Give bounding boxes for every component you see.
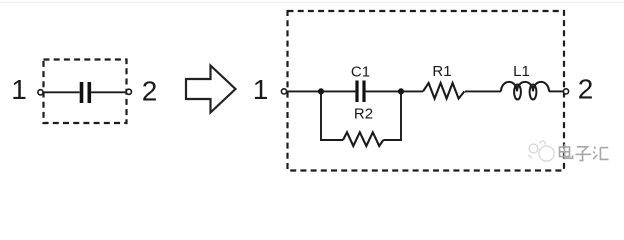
- svg-text:R2: R2: [354, 106, 373, 123]
- wire: [549, 90, 563, 92]
- wire: [465, 90, 501, 92]
- svg-text:C1: C1: [351, 64, 370, 81]
- terminal node 1 (left circuit): [38, 90, 43, 95]
- wire (R2 branch, right): [383, 91, 401, 140]
- svg-text:1: 1: [253, 74, 269, 105]
- junction node A: [318, 88, 324, 94]
- svg-text:1: 1: [11, 74, 27, 105]
- svg-text:2: 2: [142, 76, 158, 107]
- wire: [91, 91, 126, 93]
- wire: [401, 90, 423, 92]
- watermark text 电子汇: [560, 144, 609, 160]
- wire: [366, 90, 401, 92]
- capacitor (left circuit): [82, 82, 90, 103]
- terminal node 1 (right circuit): [281, 89, 286, 94]
- equivalence arrow: [186, 66, 236, 113]
- svg-text:L1: L1: [513, 63, 530, 80]
- junction node B: [398, 88, 404, 94]
- 汇: [594, 147, 596, 149]
- dashed equivalent-circuit outline (right circuit): [288, 11, 565, 171]
- inductor L1: [501, 82, 549, 100]
- terminal node 2 (left circuit): [126, 89, 131, 94]
- wire (R2 branch, left): [321, 91, 343, 140]
- capacitor C1: [357, 81, 364, 103]
- terminal node 2 (right circuit): [563, 89, 568, 94]
- resistor R1: [423, 83, 464, 99]
- 电: [560, 147, 570, 157]
- wire: [287, 90, 321, 92]
- svg-text:R1: R1: [432, 63, 451, 80]
- dashed package outline (left circuit): [44, 60, 127, 124]
- 子: [577, 147, 588, 153]
- svg-text:2: 2: [578, 74, 594, 105]
- resistor R2: [343, 132, 383, 146]
- watermark logo icon: [528, 141, 554, 161]
- wire: [43, 91, 79, 93]
- wire: [321, 90, 355, 92]
